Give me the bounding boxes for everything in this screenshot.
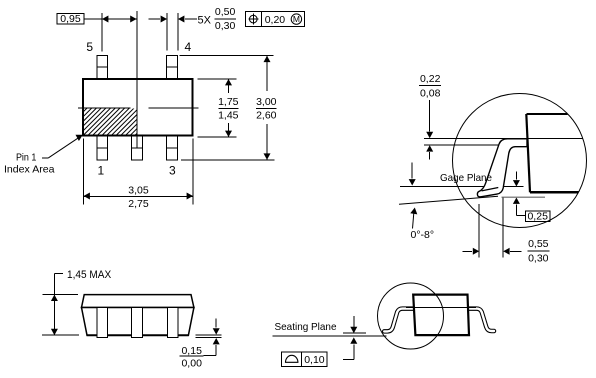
svg-text:1,45 MAX: 1,45 MAX bbox=[67, 269, 112, 281]
svg-text:Seating Plane: Seating Plane bbox=[275, 321, 337, 333]
svg-text:1,45: 1,45 bbox=[218, 110, 239, 122]
svg-text:0,08: 0,08 bbox=[420, 87, 441, 99]
svg-text:M: M bbox=[293, 14, 300, 24]
svg-text:0,10: 0,10 bbox=[304, 354, 325, 366]
svg-text:0,20: 0,20 bbox=[265, 14, 286, 26]
svg-text:0,55: 0,55 bbox=[528, 238, 549, 250]
svg-text:3: 3 bbox=[169, 164, 176, 178]
svg-text:0,22: 0,22 bbox=[420, 73, 441, 85]
svg-text:0,30: 0,30 bbox=[215, 20, 236, 32]
svg-text:1,75: 1,75 bbox=[218, 96, 239, 108]
svg-text:4: 4 bbox=[184, 40, 191, 54]
svg-text:1: 1 bbox=[98, 164, 105, 178]
svg-text:0°-8°: 0°-8° bbox=[411, 229, 435, 241]
svg-text:2,75: 2,75 bbox=[128, 198, 149, 210]
svg-text:Index Area: Index Area bbox=[4, 164, 55, 176]
svg-text:5X: 5X bbox=[198, 14, 212, 26]
svg-text:0,50: 0,50 bbox=[215, 6, 236, 18]
svg-text:3,00: 3,00 bbox=[256, 96, 277, 108]
svg-text:2,60: 2,60 bbox=[256, 110, 277, 122]
svg-text:0,00: 0,00 bbox=[181, 357, 202, 369]
svg-text:0,30: 0,30 bbox=[528, 252, 549, 264]
svg-text:5: 5 bbox=[86, 40, 93, 54]
svg-text:3,05: 3,05 bbox=[128, 184, 149, 196]
svg-text:0,15: 0,15 bbox=[181, 345, 202, 357]
svg-text:Pin 1: Pin 1 bbox=[16, 151, 37, 163]
svg-text:0,25: 0,25 bbox=[527, 210, 548, 222]
svg-text:Gage Plane: Gage Plane bbox=[440, 172, 492, 184]
svg-text:0,95: 0,95 bbox=[60, 13, 81, 25]
